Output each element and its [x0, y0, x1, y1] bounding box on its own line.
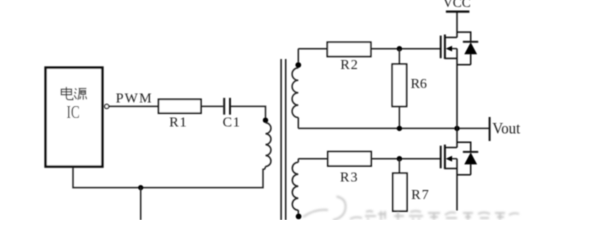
svg-text:VCC: VCC	[443, 0, 471, 10]
svg-text:R1: R1	[169, 115, 187, 130]
svg-text:R2: R2	[340, 58, 358, 73]
svg-text:R6: R6	[411, 77, 427, 92]
svg-text:IC: IC	[67, 102, 80, 122]
svg-text:R3: R3	[340, 171, 359, 186]
svg-text:C1: C1	[223, 115, 241, 130]
svg-text:PWM: PWM	[116, 92, 153, 107]
svg-text:R7: R7	[411, 188, 430, 203]
svg-text:Vout: Vout	[492, 120, 520, 137]
